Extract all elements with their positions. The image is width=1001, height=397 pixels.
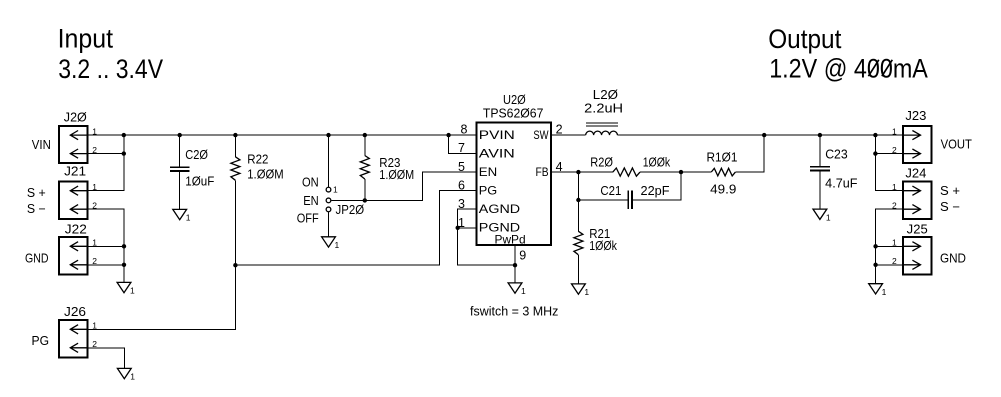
junction VIN rail / R23 <box>363 133 367 137</box>
capacitor C21 <box>578 172 681 209</box>
junction ground bus / J22.2 <box>122 263 126 267</box>
wire VIN bus down to J21.1 <box>87 135 123 191</box>
svg-text:S −: S − <box>27 202 46 216</box>
connector J22 <box>59 237 87 274</box>
wire VIN rail J20.1 to U20 PVIN <box>87 134 476 136</box>
svg-text:PG: PG <box>479 184 497 198</box>
wire PGND pin 1 stub <box>458 227 477 229</box>
svg-text:S +: S + <box>27 186 46 200</box>
svg-text:22pF: 22pF <box>641 184 670 198</box>
connector J21 <box>59 182 87 219</box>
svg-text:1: 1 <box>892 238 897 248</box>
svg-text:EN: EN <box>303 194 319 208</box>
ground at JP20 OFF <box>322 237 340 250</box>
connector J25 <box>903 237 931 274</box>
svg-text:J2Ø: J2Ø <box>64 110 87 124</box>
resistor R21 <box>574 200 618 284</box>
resistor R20 <box>590 155 671 176</box>
svg-text:4.7uF: 4.7uF <box>825 177 858 191</box>
svg-text:49.9: 49.9 <box>710 183 736 197</box>
junction VOUT rail / R101 <box>762 133 766 137</box>
svg-text:TPS62Ø67: TPS62Ø67 <box>483 107 544 121</box>
svg-text:AGND: AGND <box>479 202 521 216</box>
svg-text:1.ØØM: 1.ØØM <box>379 168 414 182</box>
svg-text:9: 9 <box>519 248 526 262</box>
svg-text:FB: FB <box>536 165 549 179</box>
svg-text:1: 1 <box>335 240 340 250</box>
wire EN jumper to U20 EN pin <box>331 172 476 200</box>
svg-text:J21: J21 <box>64 165 86 179</box>
wire PG line junction to U20 PG pin <box>235 191 476 266</box>
junction J20.2 / bus <box>122 151 126 155</box>
wire J24.2 S- to right ground bus <box>876 209 904 284</box>
svg-text:1: 1 <box>130 286 135 296</box>
junction PGND bus / pin 9 <box>513 263 517 267</box>
svg-text:1: 1 <box>826 212 831 222</box>
svg-text:1: 1 <box>521 286 526 296</box>
wire PwPd pin 9 to ground <box>514 245 516 283</box>
connector J23 <box>903 126 931 163</box>
junction FB / divider top <box>576 170 580 174</box>
ground at C23 <box>813 209 831 222</box>
wire VOUT rail L20 to J23.1 <box>617 134 903 136</box>
wire J22.1 to ground bus <box>87 245 124 247</box>
wire J23.2 to VOUT bus <box>875 153 903 155</box>
svg-text:J24: J24 <box>905 167 926 181</box>
svg-text:Output: Output <box>768 24 842 54</box>
svg-text:ON: ON <box>302 176 319 190</box>
svg-text:GND: GND <box>940 252 966 266</box>
svg-text:2: 2 <box>892 145 897 155</box>
resistor R101 <box>707 150 738 196</box>
junction J23.2 / bus <box>873 151 877 155</box>
svg-text:J23: J23 <box>905 109 926 123</box>
wire J20.2 to VIN bus <box>87 153 123 155</box>
svg-text:J25: J25 <box>907 222 928 236</box>
wire J26.2 to ground <box>87 348 124 369</box>
svg-text:1ØuF: 1ØuF <box>185 175 214 189</box>
svg-text:1: 1 <box>882 287 887 297</box>
svg-text:Input: Input <box>58 24 114 54</box>
svg-text:1: 1 <box>892 126 897 136</box>
wire VOUT bus down to J24.1 <box>875 135 903 191</box>
svg-text:C23: C23 <box>825 148 848 162</box>
wire J21.2 S- to ground bus <box>87 209 124 282</box>
ground at J22 <box>117 282 135 295</box>
svg-text:6: 6 <box>458 179 465 193</box>
ground at J25 <box>869 284 887 297</box>
connector J24 <box>903 182 931 219</box>
svg-text:S −: S − <box>940 200 960 214</box>
capacitor C20 <box>170 135 215 209</box>
svg-text:C2Ø: C2Ø <box>185 148 208 162</box>
svg-text:U2Ø: U2Ø <box>503 93 526 107</box>
svg-text:R22: R22 <box>247 152 268 166</box>
svg-text:PG: PG <box>32 334 50 348</box>
junction VIN rail / J20 bus <box>122 133 126 137</box>
junction VOUT rail / C23 <box>818 133 822 137</box>
wire SW pin 2 to L20 <box>551 134 586 136</box>
junction VOUT rail / J23 bus <box>873 133 877 137</box>
junction right ground bus / J25.2 <box>873 263 877 267</box>
wire J26.1 PG to junction <box>87 265 235 329</box>
capacitor C23 <box>810 135 858 209</box>
svg-text:PwPd: PwPd <box>495 233 526 247</box>
svg-text:2.2uH: 2.2uH <box>584 102 623 116</box>
svg-text:1ØØk: 1ØØk <box>589 239 617 253</box>
junction VIN rail / JP20 <box>326 133 330 137</box>
wire R101 to VOUT rail <box>735 135 764 172</box>
svg-text:VIN: VIN <box>32 138 51 152</box>
ground at C20 <box>173 209 191 222</box>
svg-text:1: 1 <box>584 287 589 297</box>
svg-text:8: 8 <box>460 122 467 136</box>
svg-text:3.2 .. 3.4V: 3.2 .. 3.4V <box>58 54 163 84</box>
junction EN wire / R23 bottom <box>363 198 367 202</box>
svg-text:R1Ø1: R1Ø1 <box>707 150 738 164</box>
svg-text:J22: J22 <box>65 222 87 236</box>
wire J25.1 to right ground bus <box>876 245 904 247</box>
svg-text:2: 2 <box>892 256 897 266</box>
jumper JP20 <box>297 135 365 237</box>
svg-text:VOUT: VOUT <box>941 137 973 151</box>
connector J26 <box>59 320 87 357</box>
junction VIN rail / R22 <box>233 133 237 137</box>
svg-text:1: 1 <box>186 213 191 223</box>
ground at R21 <box>572 284 590 297</box>
svg-text:OFF: OFF <box>297 211 319 225</box>
svg-text:AVIN: AVIN <box>479 146 515 160</box>
svg-text:1ØØk: 1ØØk <box>643 156 671 170</box>
svg-text:JP2Ø: JP2Ø <box>336 203 365 217</box>
op-amp/IC U20 TPS62067 body <box>476 123 551 245</box>
connector J20 <box>59 126 87 163</box>
wire J25.2 to right ground bus <box>876 264 904 266</box>
svg-text:PVIN: PVIN <box>479 128 515 142</box>
wire FB pin 4 to divider junction <box>551 171 613 173</box>
svg-text:5: 5 <box>458 160 465 174</box>
resistor R22 <box>231 135 284 265</box>
ground at PwPd <box>508 283 526 296</box>
svg-text:2: 2 <box>556 122 563 136</box>
svg-text:7: 7 <box>458 141 465 155</box>
junction C21 / R21 <box>576 198 580 202</box>
wire FB junction down to C21/R21 <box>577 172 579 200</box>
svg-text:SW: SW <box>533 128 549 142</box>
svg-text:S +: S + <box>940 184 960 198</box>
svg-text:1.ØØM: 1.ØØM <box>247 167 283 181</box>
wire R20 to R101 <box>640 171 711 173</box>
junction VIN rail / AVIN branch <box>446 133 450 137</box>
svg-text:1: 1 <box>130 372 135 382</box>
svg-text:fswitch = 3 MHz: fswitch = 3 MHz <box>470 305 558 319</box>
inductor L20 2.2uH <box>584 88 623 135</box>
junction right ground bus / J25.1 <box>873 244 877 248</box>
svg-text:1: 1 <box>892 182 897 192</box>
svg-text:EN: EN <box>479 165 497 179</box>
svg-text:2: 2 <box>892 200 897 210</box>
junction AGND / PGND <box>456 226 460 230</box>
svg-text:GND: GND <box>25 252 49 266</box>
svg-text:1: 1 <box>333 185 338 195</box>
junction R20 / C21 / R101 <box>679 170 683 174</box>
junction ground bus / J22.1 <box>122 244 126 248</box>
svg-text:R2Ø: R2Ø <box>590 155 613 169</box>
junction VIN rail / C20 <box>178 133 182 137</box>
svg-text:J26: J26 <box>64 305 86 319</box>
resistor R23 <box>360 135 414 200</box>
wire PGND bus to PwPd pin 9 <box>458 228 515 265</box>
svg-text:C21: C21 <box>600 184 621 198</box>
ground at J26.2 <box>117 368 135 381</box>
svg-text:L2Ø: L2Ø <box>593 88 618 102</box>
wire J22.2 to ground bus <box>87 264 124 266</box>
svg-text:1.2V @ 400mA: 1.2V @ 400mA <box>769 54 928 84</box>
wire AGND pin 3 to PGND bus <box>458 209 477 228</box>
junction PG line / R22 bottom <box>233 263 237 267</box>
wire AVIN pin 7 to VIN rail <box>449 135 477 154</box>
